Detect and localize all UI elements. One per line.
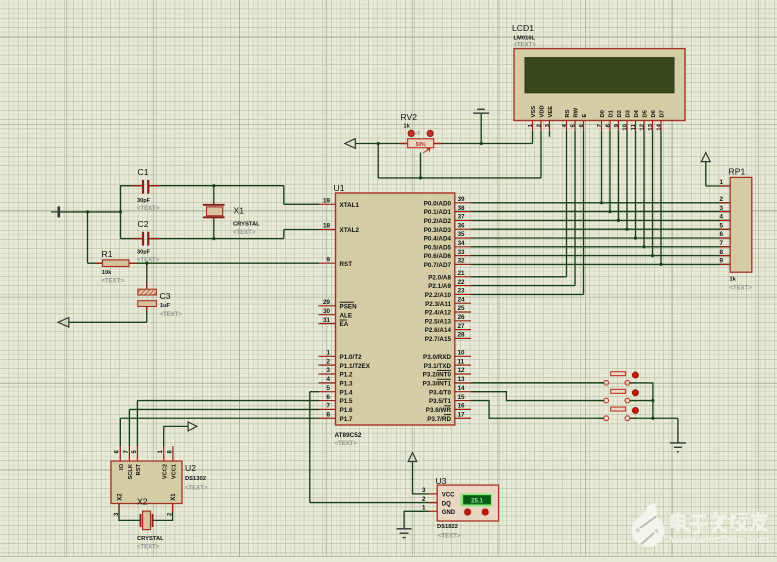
svg-text:24: 24 [458, 296, 466, 303]
svg-text:<TEXT>: <TEXT> [137, 545, 160, 551]
pin U2 X2 bottom wire [119, 504, 141, 521]
wire P0.4 row to RP1 [471, 237, 730, 239]
wire P1.5 row [137, 400, 319, 402]
pin 10 D3 LCD stub [622, 109, 631, 130]
svg-text:RS: RS [565, 109, 571, 117]
wire gnd junction down to R1 [87, 212, 89, 263]
svg-text:VEE: VEE [548, 106, 554, 118]
U3 button minus [481, 507, 490, 516]
node D0 junction [600, 201, 603, 204]
wire wiper vertical [420, 153, 422, 178]
pin 28 P2.7/A15 right stub [425, 332, 471, 343]
wire P2 row to LCD [471, 285, 575, 287]
svg-text:7: 7 [597, 124, 603, 127]
svg-text:VSS: VSS [531, 106, 537, 118]
wire button3 right to gnd corner [630, 417, 678, 419]
svg-text:1k: 1k [730, 277, 737, 283]
wire P3.4 jog [471, 392, 604, 401]
pin 16 P3.6/WR right stub [426, 403, 471, 414]
svg-text:D4: D4 [634, 109, 640, 117]
pot terminal dot right [427, 130, 433, 136]
crystal X1 [203, 186, 225, 239]
svg-text:PSEN: PSEN [340, 303, 358, 310]
svg-text:P3.5/T1: P3.5/T1 [429, 398, 452, 405]
svg-text:29: 29 [323, 299, 331, 306]
U3 display [464, 496, 491, 505]
svg-text:<TEXT>: <TEXT> [438, 534, 461, 540]
node gnd tap on VSS wire [480, 142, 483, 145]
wire pot right to LCD VSS [434, 143, 533, 145]
wire P1.4 row [310, 391, 319, 393]
svg-text:P1.5: P1.5 [340, 398, 353, 405]
wire C1 right to corner [149, 185, 283, 187]
svg-text:P0.1/AD1: P0.1/AD1 [424, 209, 452, 216]
pin 15 P3.5/T1 right stub [429, 394, 471, 405]
pin 1 VSS LCD stub [528, 106, 537, 131]
pin RP1 stub 2 red [720, 202, 731, 204]
wire C1 left [121, 185, 143, 187]
pin R1 left red [95, 262, 103, 264]
svg-text:4: 4 [719, 214, 723, 221]
svg-text:3: 3 [326, 367, 330, 374]
pin 8 P1.7 left stub [319, 411, 353, 422]
pin 8 VCC1 U2 top [167, 446, 177, 479]
svg-text:8: 8 [719, 249, 723, 256]
svg-text:P3.7/RD: P3.7/RD [427, 416, 451, 423]
wire C2 right to corner [149, 238, 283, 240]
svg-text:2: 2 [536, 124, 542, 127]
pin 3 P1.2 left stub [319, 367, 353, 378]
wire C3 bottom down [146, 307, 148, 323]
svg-text:P0.6/AD6: P0.6/AD6 [424, 253, 452, 260]
wire P0.3 row to RP1 [471, 228, 730, 230]
pin 29 PSEN left stub [319, 299, 358, 310]
svg-text:P2.0/A8: P2.0/A8 [428, 274, 451, 281]
pin 38 P0.1/AD1 right stub [424, 205, 471, 216]
pin 33 P0.6/AD6 right stub [424, 249, 471, 260]
svg-text:2: 2 [326, 358, 330, 365]
svg-text:9: 9 [326, 256, 330, 263]
pin 31 EA left stub [319, 317, 349, 328]
wire D4 vertical [635, 131, 637, 238]
wire DQ horizontal [310, 502, 437, 504]
svg-text:36: 36 [458, 222, 466, 229]
wire D6 vertical [652, 131, 654, 256]
pin 9 RST left stub [319, 256, 353, 267]
pin 14 P3.4/T0 right stub [429, 385, 471, 396]
pin RP1 stub 3 red [720, 211, 731, 213]
svg-text:P0.7/AD7: P0.7/AD7 [424, 262, 452, 269]
pin 37 P0.2/AD2 right stub [424, 214, 471, 225]
wire corner down to XTAL1 [283, 186, 285, 205]
node button2 tap [651, 399, 654, 402]
pin 30 ALE left stub [319, 308, 353, 319]
svg-text:XTAL2: XTAL2 [340, 227, 360, 234]
svg-text:P1.1/T2EX: P1.1/T2EX [340, 363, 371, 370]
wire VSS vertical up [532, 131, 534, 144]
pin 6 P1.5 left stub [319, 394, 353, 405]
pot terminal dot left [408, 130, 414, 136]
wire P1.7 row [120, 417, 319, 419]
svg-text:P3.4/T0: P3.4/T0 [429, 389, 452, 396]
svg-text:13: 13 [648, 123, 654, 130]
svg-text:IO: IO [119, 463, 125, 470]
svg-text:DQ: DQ [442, 501, 451, 507]
svg-text:1: 1 [326, 350, 330, 357]
watermark logo elecfans [632, 503, 665, 547]
svg-text:D0: D0 [600, 110, 606, 117]
node junction wiper net tap [377, 142, 380, 145]
power arrow terminal U3 [408, 453, 417, 462]
ground symbol buttons [670, 443, 686, 452]
svg-text:CRYSTAL: CRYSTAL [233, 222, 260, 228]
svg-text:E: E [582, 114, 588, 118]
svg-text:23: 23 [458, 288, 466, 295]
pin 12 D5 LCD stub [639, 109, 648, 130]
wire down to C3 [146, 263, 148, 289]
wire gnd-bar to caps [60, 211, 120, 213]
pin 21 P2.0/A8 right stub [428, 270, 471, 281]
pin RP1 stub 6 red [720, 237, 731, 239]
wire into XTAL2 pin18 [284, 229, 319, 231]
wire P3.3 to button1 [471, 382, 604, 384]
wire C1-C2 left vertical [120, 185, 122, 238]
svg-text:38: 38 [458, 205, 466, 212]
svg-text:P0.4/AD4: P0.4/AD4 [424, 236, 452, 243]
node D4 junction [634, 236, 637, 239]
svg-text:P2.4/A12: P2.4/A12 [425, 310, 452, 317]
pin C2 right red [149, 238, 160, 240]
pin 1 VCC2 U2 top [158, 446, 168, 479]
wire P0.6 row to RP1 [471, 255, 730, 257]
svg-text:DS1822: DS1822 [437, 524, 458, 530]
svg-text:<TEXT>: <TEXT> [335, 441, 358, 447]
svg-text:D2: D2 [617, 110, 623, 117]
svg-text:RST: RST [340, 261, 353, 268]
pin 7 SCLK U2 top [124, 446, 134, 479]
wire D5 vertical [643, 131, 645, 247]
node junction R1 branch [86, 210, 89, 213]
pin C3 top red [146, 283, 148, 289]
svg-text:16: 16 [458, 403, 466, 410]
svg-text:11: 11 [631, 123, 637, 130]
resistor pack RP1 body [730, 177, 752, 272]
LCD LCD1 LM016L body [514, 49, 685, 121]
op-amp like main IC U1 AT89C52 body [336, 193, 455, 425]
svg-text:15: 15 [458, 394, 466, 401]
svg-text:27: 27 [458, 323, 466, 330]
svg-text:26: 26 [458, 314, 466, 321]
svg-text:P1.0/T2: P1.0/T2 [340, 354, 363, 361]
svg-text:1k: 1k [404, 124, 411, 130]
svg-text:EA: EA [340, 321, 349, 328]
wire D7 vertical [660, 131, 662, 265]
svg-text:1: 1 [422, 505, 426, 512]
watermark chinese text [672, 513, 766, 533]
pin 26 P2.5/A13 right stub [425, 314, 471, 325]
ground symbol mid [473, 109, 489, 143]
svg-text:C1: C1 [138, 167, 149, 177]
wire RP1 pin1 up [705, 162, 707, 186]
pin 22 P2.1/A9 right stub [428, 279, 471, 290]
pin DQ red [429, 502, 438, 504]
svg-text:10: 10 [622, 124, 628, 130]
wire U2 SCLK vertical [128, 409, 130, 446]
power arrow terminal U2 [188, 422, 197, 431]
pin 13 P3.3/INT1 right stub [423, 376, 471, 387]
svg-text:13: 13 [458, 376, 466, 383]
wire LCD control vertical [583, 131, 585, 295]
power arrow terminal RP1 [701, 153, 710, 162]
pin pot left red [400, 143, 408, 145]
wire P0.1 row to RP1 [471, 211, 730, 213]
wire D2 vertical [618, 131, 620, 221]
push button SW1 [598, 372, 638, 386]
ground arrow terminal [58, 318, 69, 328]
ground arrow terminal pot left [345, 139, 355, 149]
svg-text:33: 33 [458, 249, 466, 256]
U3 display glow [461, 494, 493, 507]
svg-text:U2: U2 [185, 463, 196, 473]
pin C1 right red [149, 185, 160, 187]
svg-text:21: 21 [458, 270, 466, 277]
wire GND U3 [404, 511, 428, 529]
svg-text:D5: D5 [643, 109, 649, 117]
svg-text:25: 25 [458, 305, 466, 312]
pin 2 DQ U3 [422, 496, 451, 507]
wire P2 row to LCD [471, 276, 567, 278]
svg-text:2: 2 [422, 496, 426, 503]
svg-text:www.elecfans.com: www.elecfans.com [670, 534, 769, 546]
wire VEE short stub [549, 131, 551, 137]
svg-text:34: 34 [458, 240, 466, 247]
svg-text:P2.6/A14: P2.6/A14 [425, 327, 452, 334]
svg-text:RV2: RV2 [401, 112, 418, 122]
svg-text:30pF: 30pF [137, 250, 151, 256]
wire C3 to ground arrow [69, 321, 147, 323]
pin 1 P1.0/T2 left stub [319, 350, 363, 361]
svg-text:P2.7/A15: P2.7/A15 [425, 336, 452, 343]
svg-text:11: 11 [458, 358, 465, 365]
pin RP1 stub 7 red [720, 246, 731, 248]
svg-text:P3.0/RXD: P3.0/RXD [423, 354, 451, 361]
pin RP1 stub 9 red [720, 263, 731, 265]
svg-text:<TEXT>: <TEXT> [137, 206, 160, 212]
U3 button plus [463, 507, 472, 516]
svg-text:X2: X2 [137, 497, 148, 507]
svg-text:X2: X2 [117, 493, 123, 501]
ground symbol U3 [397, 529, 412, 538]
svg-text:P0.2/AD2: P0.2/AD2 [424, 218, 452, 225]
svg-text:P0.0/AD0: P0.0/AD0 [424, 200, 452, 207]
svg-text:RW: RW [574, 107, 580, 117]
wire P3.5 jog [471, 401, 604, 419]
svg-text:AT89C52: AT89C52 [335, 432, 362, 439]
svg-text:X1: X1 [234, 206, 245, 216]
svg-text:U1: U1 [334, 183, 345, 193]
node junction at gnd wire [119, 210, 122, 213]
wire R1 right to RST pin9 [129, 262, 319, 264]
wire P0.5 row to RP1 [471, 246, 730, 248]
pin RP1 stub 4 red [720, 219, 731, 221]
svg-text:3: 3 [422, 487, 426, 494]
pin 24 P2.3/A11 right stub [425, 296, 471, 307]
svg-text:5: 5 [719, 222, 723, 229]
svg-text:<TEXT>: <TEXT> [185, 486, 208, 492]
svg-text:P2.5/A13: P2.5/A13 [425, 318, 452, 325]
pin 5 RST U2 top [132, 446, 142, 475]
svg-text:<TEXT>: <TEXT> [730, 286, 753, 292]
svg-text:D3: D3 [626, 109, 632, 117]
svg-text:<T: <T [414, 132, 421, 138]
pin pot right red [434, 143, 442, 145]
pin RP1 stub 8 red [720, 255, 731, 257]
pin U2 X1 red [172, 504, 174, 512]
svg-text:6: 6 [326, 394, 330, 401]
node X1 top [212, 184, 215, 187]
pin 27 P2.6/A14 right stub [425, 323, 471, 334]
RTC U2 DS1302 body [111, 461, 182, 504]
svg-text:P2.3/A11: P2.3/A11 [425, 301, 451, 308]
pin 2 VDD LCD stub [536, 105, 545, 131]
wire VDD vertical up [540, 131, 542, 178]
pin 11 D4 LCD stub [631, 109, 640, 130]
svg-text:31: 31 [323, 317, 331, 324]
wire LCD control vertical [574, 131, 576, 286]
svg-text:P1.3: P1.3 [340, 380, 353, 387]
pin 1 RP1 wire [706, 179, 730, 186]
pin 39 P0.0/AD0 right stub [424, 196, 471, 207]
wire arrow to pot [355, 143, 407, 145]
node D7 junction [659, 263, 662, 266]
svg-text:3: 3 [719, 205, 723, 212]
wire DQ vertical [309, 392, 311, 503]
pin 12 P3.2/INT0 right stub [423, 367, 471, 378]
pin 6 E LCD stub [579, 114, 588, 131]
svg-text:8: 8 [326, 411, 330, 418]
pin C2 left red [132, 238, 143, 240]
svg-text:P1.4: P1.4 [340, 389, 353, 396]
svg-text:D6: D6 [651, 109, 657, 117]
svg-text:P2.2/A10: P2.2/A10 [425, 292, 452, 299]
wire wiper horizontal to VDD [378, 177, 541, 179]
svg-text:U3: U3 [436, 476, 447, 486]
node D6 junction [651, 254, 654, 257]
crystal X2 body [140, 511, 154, 529]
svg-text:5: 5 [326, 385, 330, 392]
svg-text:28: 28 [458, 332, 466, 339]
svg-text:P1.2: P1.2 [340, 372, 353, 379]
power bar terminal left [51, 206, 60, 217]
svg-text:LM016L: LM016L [514, 35, 536, 41]
svg-text:C3: C3 [160, 291, 171, 301]
svg-text:30: 30 [323, 308, 331, 315]
svg-text:P2.1/A9: P2.1/A9 [428, 283, 451, 290]
svg-text:6: 6 [719, 231, 723, 238]
pin 5 RW LCD stub [570, 107, 579, 130]
pin 19 XTAL1 left stub [319, 198, 360, 209]
node D3 junction [625, 228, 628, 231]
wire P0.7 row to RP1 [471, 263, 730, 265]
svg-text:7: 7 [719, 240, 723, 247]
svg-text:C2: C2 [138, 219, 149, 229]
svg-text:1uF: 1uF [160, 303, 171, 309]
LCD screen [525, 58, 674, 93]
svg-text:P0.5/AD5: P0.5/AD5 [424, 244, 452, 251]
potentiometer RV2 body [408, 139, 434, 148]
pin 4 RS LCD stub [562, 109, 571, 130]
svg-text:LCD1: LCD1 [512, 23, 534, 33]
wire P1.6 row [129, 408, 319, 410]
svg-text:P1.7: P1.7 [340, 416, 353, 423]
node wiper vertical junction [419, 176, 422, 179]
svg-text:ALE: ALE [340, 312, 353, 319]
pin 36 P0.3/AD3 right stub [424, 222, 471, 233]
svg-text:DS1302: DS1302 [185, 476, 206, 482]
wire junction down [377, 144, 379, 178]
push button SW2 [598, 389, 638, 403]
svg-text:D1: D1 [609, 109, 615, 117]
svg-text:P3.6/WR: P3.6/WR [426, 407, 452, 414]
temperature sensor U3 DS1822 body [437, 485, 498, 521]
pin U2 X1 bottom wire [153, 504, 173, 521]
svg-text:<TEXT>: <TEXT> [102, 279, 125, 285]
wire into XTAL1 pin19 [284, 203, 319, 205]
pin 25 P2.4/A12 right stub [425, 305, 471, 316]
pin U2 X2 red [118, 504, 120, 512]
svg-text:P3.2/INT0: P3.2/INT0 [423, 372, 452, 379]
capacitor C2 [142, 232, 150, 246]
pin 8 D1 LCD stub [605, 109, 614, 130]
svg-text:22: 22 [458, 279, 466, 286]
wire VCC2 up to arrow [164, 426, 188, 446]
wire P0.2 row to RP1 [471, 219, 730, 221]
svg-text:RP1: RP1 [729, 167, 746, 177]
capacitor C1 [142, 180, 150, 194]
svg-text:18: 18 [323, 223, 331, 230]
svg-text:CRYSTAL: CRYSTAL [137, 536, 164, 542]
wire D0 vertical [601, 131, 603, 203]
svg-text:12: 12 [458, 367, 466, 374]
svg-text:17: 17 [458, 411, 466, 418]
wire button2 right [630, 400, 653, 402]
svg-text:1: 1 [719, 179, 723, 186]
svg-text:VCC1: VCC1 [172, 464, 178, 479]
svg-text:P0.3/AD3: P0.3/AD3 [424, 227, 452, 234]
svg-text:P3.3/INT1: P3.3/INT1 [423, 380, 452, 387]
wire VCC U3 to arrow [413, 462, 429, 494]
pin C1 left red [132, 185, 143, 187]
pin 17 P3.7/RD right stub [427, 411, 471, 422]
pin 3 VEE LCD stub [545, 106, 554, 131]
node junction C3 tap [145, 262, 148, 265]
wire D3 vertical [626, 131, 628, 229]
pin C3 bottom red [146, 307, 148, 313]
pin 5 P1.4 left stub [319, 385, 353, 396]
svg-text:P1.6: P1.6 [340, 407, 353, 414]
svg-text:14: 14 [656, 123, 662, 130]
pin 7 P1.6 left stub [319, 403, 353, 414]
svg-text:50%: 50% [416, 142, 427, 148]
svg-text:SCLK: SCLK [128, 463, 134, 479]
pin 35 P0.4/AD4 right stub [424, 231, 471, 242]
svg-text:RST: RST [136, 463, 142, 475]
svg-text:<TEXT>: <TEXT> [160, 312, 183, 318]
pin 18 XTAL2 left stub [319, 223, 360, 234]
svg-text:<TEXT>: <TEXT> [233, 230, 256, 236]
pin 9 D2 LCD stub [614, 110, 623, 131]
svg-text:P3.1/TXD: P3.1/TXD [424, 363, 452, 370]
